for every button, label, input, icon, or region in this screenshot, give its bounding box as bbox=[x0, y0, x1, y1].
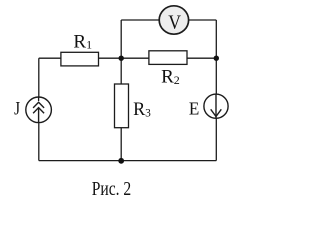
node: right junction (R2/right branch) bbox=[214, 56, 219, 61]
svg-text:R2: R2 bbox=[161, 66, 180, 87]
node: bottom junction bbox=[118, 158, 124, 164]
wire: middle vertical branch bbox=[120, 20, 122, 161]
resistor R3 bbox=[115, 84, 129, 128]
node: middle junction (R1/R2/middle branch) bbox=[119, 56, 124, 61]
svg-text:R3: R3 bbox=[133, 99, 151, 121]
voltmeter V bbox=[159, 6, 188, 34]
svg-text:E: E bbox=[189, 98, 199, 119]
resistor R2 bbox=[149, 51, 187, 65]
wire: right vertical branch bbox=[215, 20, 217, 161]
wire: top horizontal (voltmeter branch) bbox=[121, 19, 216, 21]
voltage source E bbox=[204, 94, 228, 118]
svg-text:Рис. 2: Рис. 2 bbox=[92, 177, 132, 199]
resistor R1 bbox=[61, 52, 99, 66]
wire: bottom horizontal bbox=[39, 160, 217, 162]
svg-text:V: V bbox=[168, 12, 181, 34]
wire: left vertical branch bbox=[38, 58, 40, 160]
wire: top-left horizontal (R1 branch) bbox=[39, 57, 121, 59]
svg-text:R1: R1 bbox=[73, 31, 92, 52]
current source J bbox=[26, 97, 52, 123]
svg-text:J: J bbox=[14, 98, 20, 119]
wire: R2 horizontal branch bbox=[121, 57, 216, 59]
